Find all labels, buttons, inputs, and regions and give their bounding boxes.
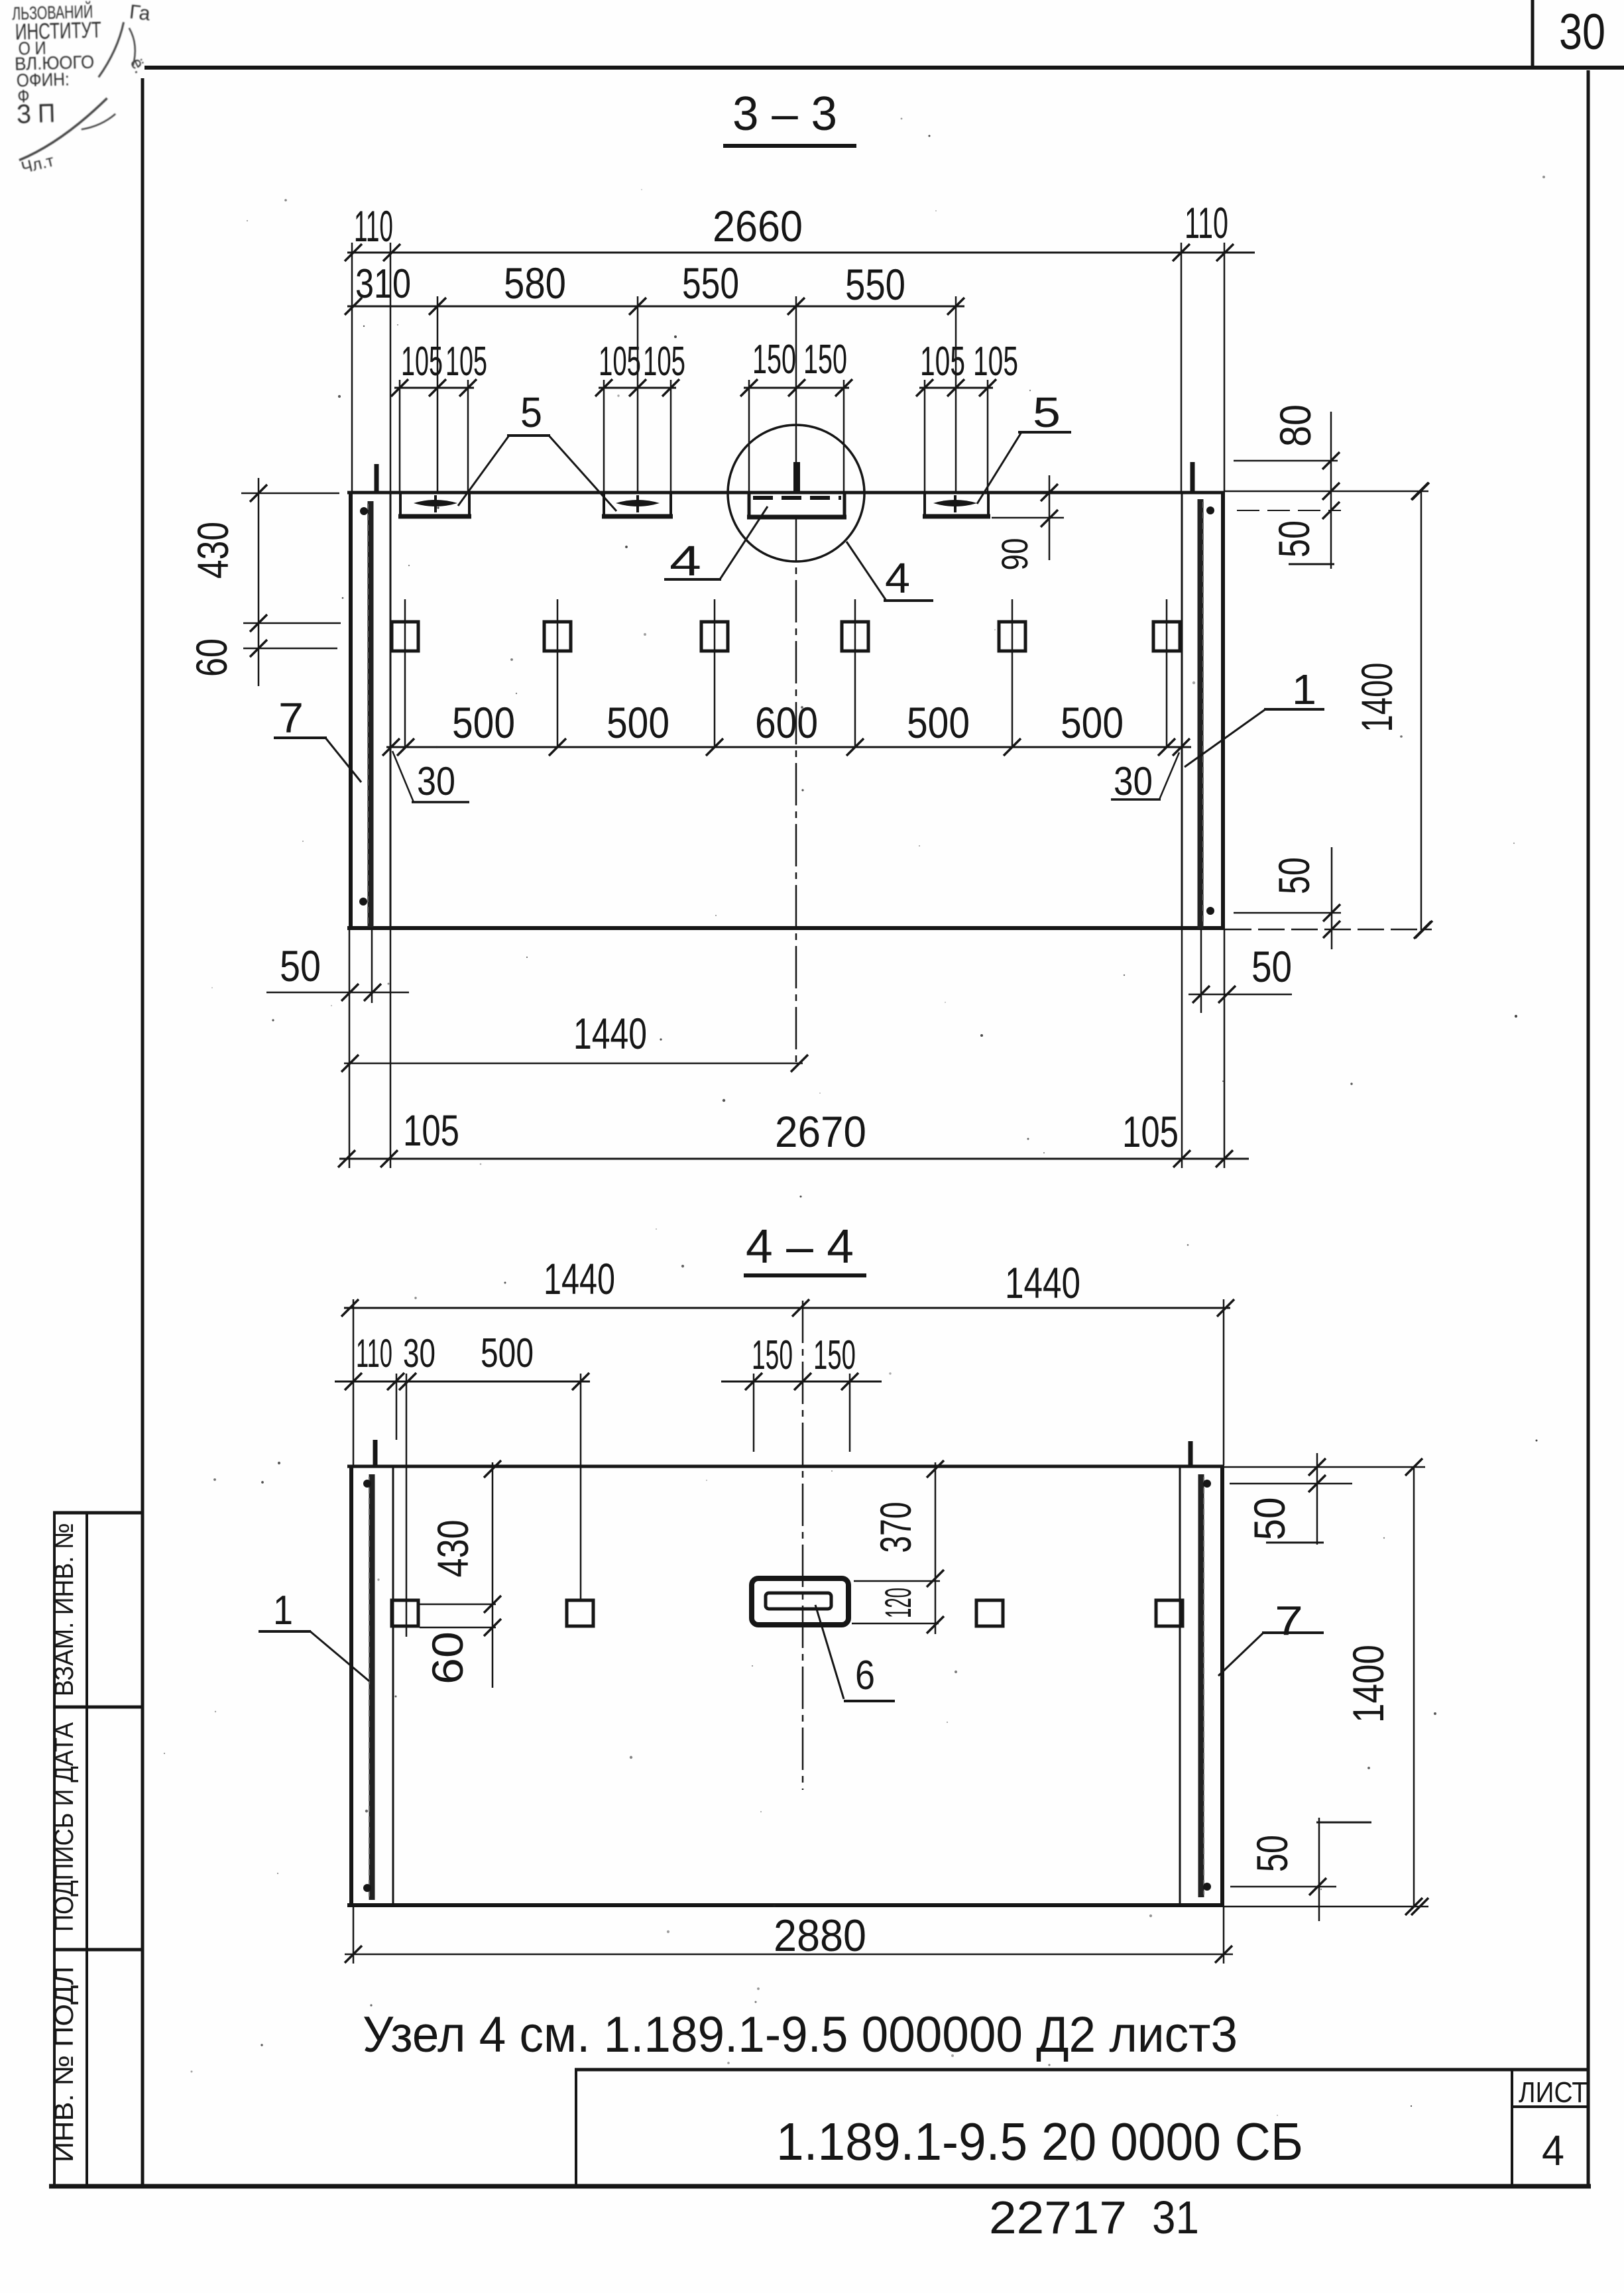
panel 4-4 left inner edge xyxy=(392,1465,394,1905)
svg-text:4: 4 xyxy=(669,537,701,585)
svg-text:90: 90 xyxy=(994,538,1035,571)
svg-text:500: 500 xyxy=(452,698,515,747)
ext below left rod xyxy=(371,930,373,1003)
right ext vertical (4-4) xyxy=(1318,1818,1320,1921)
svg-text:3 – 3: 3 – 3 xyxy=(732,88,837,141)
dim tick xyxy=(629,298,646,315)
svg-text:105: 105 xyxy=(401,339,443,384)
center line 4-4 xyxy=(802,1301,804,1790)
panel 4-4 right outer edge xyxy=(1220,1465,1224,1907)
page number cell divider xyxy=(1531,0,1535,68)
slotted plate 6 slot xyxy=(766,1593,831,1609)
ext line plate1 center xyxy=(437,296,439,491)
svg-text:580: 580 xyxy=(504,259,566,308)
dim tick xyxy=(1217,1299,1234,1317)
svg-text:1: 1 xyxy=(1292,666,1316,713)
page top border line xyxy=(145,66,1624,70)
svg-text:500: 500 xyxy=(907,698,970,747)
title block ЛИСТ divider xyxy=(1511,2070,1513,2186)
svg-text:1440: 1440 xyxy=(544,1254,615,1303)
svg-text:1.189.1-9.5 20 0000 СБ: 1.189.1-9.5 20 0000 СБ xyxy=(776,2112,1303,2171)
ext below left (2880) xyxy=(353,1907,355,1964)
svg-text:ПОДПИСЬ И ДАТА: ПОДПИСЬ И ДАТА xyxy=(50,1722,79,1932)
dim tick xyxy=(1216,244,1234,261)
slotted plate 6 outer xyxy=(752,1578,848,1625)
dim line 310/580/550/550 xyxy=(347,306,964,308)
svg-text:6: 6 xyxy=(855,1653,875,1698)
anchor bar section square 2 (4-4) xyxy=(567,1600,593,1626)
svg-text:110: 110 xyxy=(354,202,393,251)
center line 3-3 xyxy=(795,519,797,1067)
svg-text:5: 5 xyxy=(520,388,542,436)
ext line right inner up xyxy=(1181,243,1183,491)
svg-text:30: 30 xyxy=(1559,4,1605,60)
dim tick xyxy=(250,615,267,632)
svg-text:120: 120 xyxy=(877,1588,919,1618)
svg-text:310: 310 xyxy=(355,261,411,307)
title block top line xyxy=(575,2068,1590,2072)
anchor bar section square 3 (3-3) xyxy=(701,622,728,651)
svg-text:Га: Га xyxy=(129,1,152,25)
dim line 1440/1440 xyxy=(344,1307,1230,1309)
dim 90 vertical xyxy=(1049,475,1051,560)
anchor bar section square 2 (3-3) xyxy=(544,622,571,651)
ext below right rod xyxy=(1200,930,1202,1013)
svg-text:500: 500 xyxy=(1061,698,1124,747)
svg-text:30: 30 xyxy=(1114,759,1153,803)
svg-text:1440: 1440 xyxy=(573,1009,647,1058)
svg-text:105: 105 xyxy=(445,339,487,384)
panel 3-3 top edge xyxy=(347,491,1225,495)
svg-text:150: 150 xyxy=(803,337,847,382)
rod 7 bottom anchor dot xyxy=(359,898,367,906)
svg-text:31: 31 xyxy=(1152,2192,1199,2243)
dim tick xyxy=(429,298,446,315)
left ext top edge xyxy=(241,493,339,495)
panel 4-4 right inner edge xyxy=(1179,1465,1181,1905)
anchor bar section square 6 (3-3) xyxy=(1153,622,1180,651)
dim tick xyxy=(1173,244,1190,261)
dim line 150/150 (4-4) xyxy=(721,1381,882,1383)
svg-text:ВЗАМ. ИНВ. №: ВЗАМ. ИНВ. № xyxy=(50,1523,79,1696)
dim tick xyxy=(250,640,267,657)
svg-text:50: 50 xyxy=(1247,1835,1297,1872)
side table rule 2 xyxy=(53,1706,143,1709)
anchor bar section square 4 (4-4) xyxy=(1156,1600,1183,1626)
left dim line upper xyxy=(243,622,341,624)
ext line right outer up xyxy=(1224,243,1226,491)
dim 1400 vertical right xyxy=(1421,491,1422,930)
svg-text:550: 550 xyxy=(682,259,739,308)
scan speckles xyxy=(617,394,619,396)
ext 876 (4-4) xyxy=(580,1374,582,1600)
dim vertical 430/60 (4-4) xyxy=(492,1462,494,1688)
dim tick xyxy=(380,1150,398,1167)
right dim line rod bottom (4-4) xyxy=(1230,1886,1336,1888)
left lifting stub (4-4) xyxy=(373,1440,378,1465)
dim 50 bottom-right xyxy=(1189,994,1292,996)
svg-text:150: 150 xyxy=(813,1332,856,1378)
right dim line rod top (4-4) xyxy=(1230,1483,1352,1485)
svg-text:1400: 1400 xyxy=(1344,1645,1393,1723)
rod dot tr (4-4) xyxy=(1203,1480,1211,1488)
right dim line 80 upper xyxy=(1234,460,1338,462)
rod dot bl (4-4) xyxy=(363,1884,371,1892)
ext below left outer xyxy=(349,930,351,1168)
svg-text:50: 50 xyxy=(1245,1498,1294,1541)
rod 1 bottom anchor dot xyxy=(1206,907,1214,915)
anchor bar section square 4 (3-3) xyxy=(842,622,868,651)
dim tick xyxy=(1173,1150,1190,1167)
center lifting stub xyxy=(793,462,800,493)
svg-text:50: 50 xyxy=(1269,857,1318,894)
rod dot tl (4-4) xyxy=(363,1480,371,1488)
title block left line xyxy=(575,2070,577,2186)
panel 3-3 right inner edge xyxy=(1181,491,1183,928)
anchor bar section square 5 (3-3) xyxy=(999,622,1025,651)
rod 1 right bar xyxy=(1198,499,1204,929)
panel 3-3 left inner edge xyxy=(390,491,392,928)
section title 4-4 underline xyxy=(744,1273,866,1277)
svg-text:5: 5 xyxy=(1033,388,1061,436)
dim tick xyxy=(345,1373,362,1390)
dim ext plate bottom (4-4) xyxy=(852,1623,939,1625)
right dash line rod top xyxy=(1237,510,1341,511)
svg-text:З П: З П xyxy=(17,99,56,129)
dim tick xyxy=(787,298,805,315)
right bottom edge ext xyxy=(1225,929,1432,931)
left dim vertical 430/60 xyxy=(258,478,260,686)
dim tick xyxy=(794,1373,811,1390)
rod 7 top anchor dot xyxy=(360,507,368,515)
ext right outer up (4-4) xyxy=(1223,1299,1225,1465)
side table top rule xyxy=(53,1511,143,1515)
dim 1400 vertical (4-4) xyxy=(1413,1467,1415,1907)
svg-text:500: 500 xyxy=(607,698,669,747)
svg-text:ЛИСТ: ЛИСТ xyxy=(1519,2076,1588,2109)
svg-text:110: 110 xyxy=(356,1331,392,1376)
ext below right inner xyxy=(1181,930,1183,1168)
dim tick xyxy=(1216,1150,1233,1167)
dim line 500 row xyxy=(386,746,1191,748)
dim line 105/2670/105 xyxy=(339,1158,1249,1160)
embedded plate 5 (second) xyxy=(603,493,605,516)
svg-text:4: 4 xyxy=(1542,2127,1564,2174)
svg-text:2880: 2880 xyxy=(774,1911,866,1961)
dim group 4 (105 105) xyxy=(919,387,993,389)
svg-text:60: 60 xyxy=(187,638,236,677)
dim line 110/30/500 xyxy=(335,1381,590,1383)
embedded plate 5 (third) xyxy=(923,493,926,516)
svg-text:430: 430 xyxy=(188,522,237,579)
dim tick xyxy=(846,738,864,756)
ext line plate4 center xyxy=(955,296,957,491)
svg-text:30: 30 xyxy=(403,1331,435,1376)
svg-text:150: 150 xyxy=(752,1332,793,1378)
right dim chain vertical (4-4 top) xyxy=(1316,1453,1318,1545)
ext line plate2 center xyxy=(637,296,639,491)
svg-text:50: 50 xyxy=(1269,520,1318,558)
side table rule 3 xyxy=(53,1948,143,1952)
ext below left inner xyxy=(390,930,392,1168)
svg-text:50: 50 xyxy=(280,941,321,990)
left frame line xyxy=(141,78,145,2186)
panel 3-3 right outer edge xyxy=(1221,491,1225,930)
left dim line lower xyxy=(243,648,337,650)
svg-text:1400: 1400 xyxy=(1352,663,1401,733)
panel 4-4 left outer edge xyxy=(349,1465,353,1907)
svg-text:80: 80 xyxy=(1271,404,1320,447)
svg-text:600: 600 xyxy=(755,698,818,747)
svg-text:1440: 1440 xyxy=(1005,1258,1080,1307)
dim tick xyxy=(1173,738,1190,756)
dim tick xyxy=(345,298,362,315)
svg-text:550: 550 xyxy=(845,260,905,309)
ext line left outer up xyxy=(351,243,353,491)
svg-text:Узел 4 см. 1.189.1-9.5 000000: Узел 4 см. 1.189.1-9.5 000000 Д2 лист3 xyxy=(363,2007,1238,2063)
svg-text:370: 370 xyxy=(871,1502,920,1553)
svg-text:1: 1 xyxy=(273,1588,293,1633)
svg-text:4 – 4: 4 – 4 xyxy=(746,1220,854,1273)
dim group 2 (105 105) xyxy=(599,387,676,389)
ext below right outer xyxy=(1224,930,1226,1168)
right top edge ext (4-4) xyxy=(1224,1466,1425,1468)
right frame line xyxy=(1587,70,1590,2186)
detail circle node 4 xyxy=(728,425,864,561)
anchor bar section square 3 (4-4) xyxy=(976,1600,1003,1626)
svg-text:ИНВ. № ПОДЛ: ИНВ. № ПОДЛ xyxy=(50,1966,79,2162)
svg-text:60: 60 xyxy=(423,1631,472,1684)
svg-text:105: 105 xyxy=(643,339,685,384)
left lifting stub xyxy=(375,464,379,493)
dim tick xyxy=(382,738,400,756)
svg-text:2660: 2660 xyxy=(713,202,803,251)
svg-text:500: 500 xyxy=(481,1330,534,1376)
dim tick xyxy=(250,485,267,502)
dim group 1 (105 105) xyxy=(394,387,474,389)
section title 3-3 underline xyxy=(723,144,856,148)
svg-text:22717: 22717 xyxy=(989,2192,1127,2243)
dim 2880 xyxy=(345,1954,1233,1956)
side table inner line xyxy=(86,1513,88,2186)
dim tick xyxy=(706,738,723,756)
ext left outer up (4-4) xyxy=(353,1299,355,1465)
anchor bar section square 1 (3-3) xyxy=(392,622,418,651)
ext line left inner up xyxy=(390,243,392,491)
svg-text:30: 30 xyxy=(417,759,455,803)
rod 1 left bar (4-4) xyxy=(369,1474,375,1900)
rod 1 top anchor dot xyxy=(1206,506,1214,514)
dim tick xyxy=(572,1373,589,1390)
dim 50 bottom-left xyxy=(266,992,409,994)
side table outer line xyxy=(53,1513,56,2186)
embedded plate 5 (first) xyxy=(399,493,402,516)
dim ext square top (4-4) xyxy=(420,1604,496,1606)
dim group 3 (150 150) xyxy=(744,387,849,389)
dim tick xyxy=(387,1373,404,1390)
dim tick xyxy=(397,738,414,756)
right lifting stub (4-4) xyxy=(1189,1441,1193,1465)
right top edge ext xyxy=(1225,491,1428,493)
rod 7 right bar (4-4) xyxy=(1198,1474,1204,1897)
panel 4-4 bottom edge xyxy=(347,1903,1224,1907)
right lifting stub xyxy=(1190,462,1195,493)
center line 3-3 ext xyxy=(795,296,797,463)
ext 613 (4-4) xyxy=(406,1374,408,1637)
embedded plate 4 (center, sectioned) xyxy=(748,493,751,516)
dim tick xyxy=(745,1373,762,1390)
dim tick xyxy=(549,738,566,756)
right dim chain vertical bottom xyxy=(1331,847,1333,949)
svg-text:4: 4 xyxy=(885,554,910,602)
svg-text:50: 50 xyxy=(1251,942,1292,991)
svg-text:2670: 2670 xyxy=(775,1107,866,1156)
right dim line rod bottom xyxy=(1234,912,1341,914)
rod 7 left bar xyxy=(368,501,374,927)
panel 3-3 bottom edge xyxy=(347,926,1225,930)
dim vertical 370/120 xyxy=(935,1462,937,1634)
dim tick xyxy=(383,244,400,261)
svg-text:105: 105 xyxy=(1122,1107,1179,1156)
ext 597 (4-4) xyxy=(396,1374,398,1440)
svg-text:105: 105 xyxy=(403,1106,459,1155)
svg-text:150: 150 xyxy=(752,337,796,382)
svg-text:430: 430 xyxy=(428,1520,477,1578)
ext below right (2880) xyxy=(1223,1907,1225,1964)
svg-text:7: 7 xyxy=(1275,1598,1303,1644)
dim tick xyxy=(792,1299,809,1317)
dim ext plate top (4-4) xyxy=(854,1580,940,1582)
dim tick xyxy=(1004,738,1021,756)
right dim chain vertical top xyxy=(1330,412,1332,569)
svg-text:105: 105 xyxy=(599,339,641,384)
dim tick xyxy=(399,1373,416,1390)
dim tick xyxy=(338,1150,355,1167)
svg-text:105: 105 xyxy=(973,339,1018,384)
svg-text:105: 105 xyxy=(920,339,965,384)
svg-text:7: 7 xyxy=(278,694,304,742)
dim tick xyxy=(341,1299,359,1317)
dim tick xyxy=(345,244,362,261)
bottom frame line xyxy=(49,2184,1591,2189)
dim tick xyxy=(947,298,964,315)
dim ext square bottom (4-4) xyxy=(420,1627,496,1629)
ext 1282 (4-4) xyxy=(849,1374,851,1452)
right bottom edge ext (4-4) xyxy=(1224,1906,1428,1908)
ext 1137 (4-4) xyxy=(753,1374,755,1452)
dim tick xyxy=(841,1373,858,1390)
dim 1440 (3-3) xyxy=(344,1063,803,1065)
title block ЛИСТ rule xyxy=(1512,2105,1590,2108)
official stamp top-left xyxy=(12,0,156,178)
rod dot br (4-4) xyxy=(1203,1883,1211,1891)
dim tick xyxy=(1158,738,1175,756)
dim line 110/2660/110 xyxy=(347,252,1255,254)
panel 4-4 top edge xyxy=(347,1465,1224,1468)
panel 3-3 left outer edge xyxy=(349,491,353,930)
anchor bar section square 1 (4-4) xyxy=(392,1600,418,1626)
svg-text:110: 110 xyxy=(1185,198,1228,247)
